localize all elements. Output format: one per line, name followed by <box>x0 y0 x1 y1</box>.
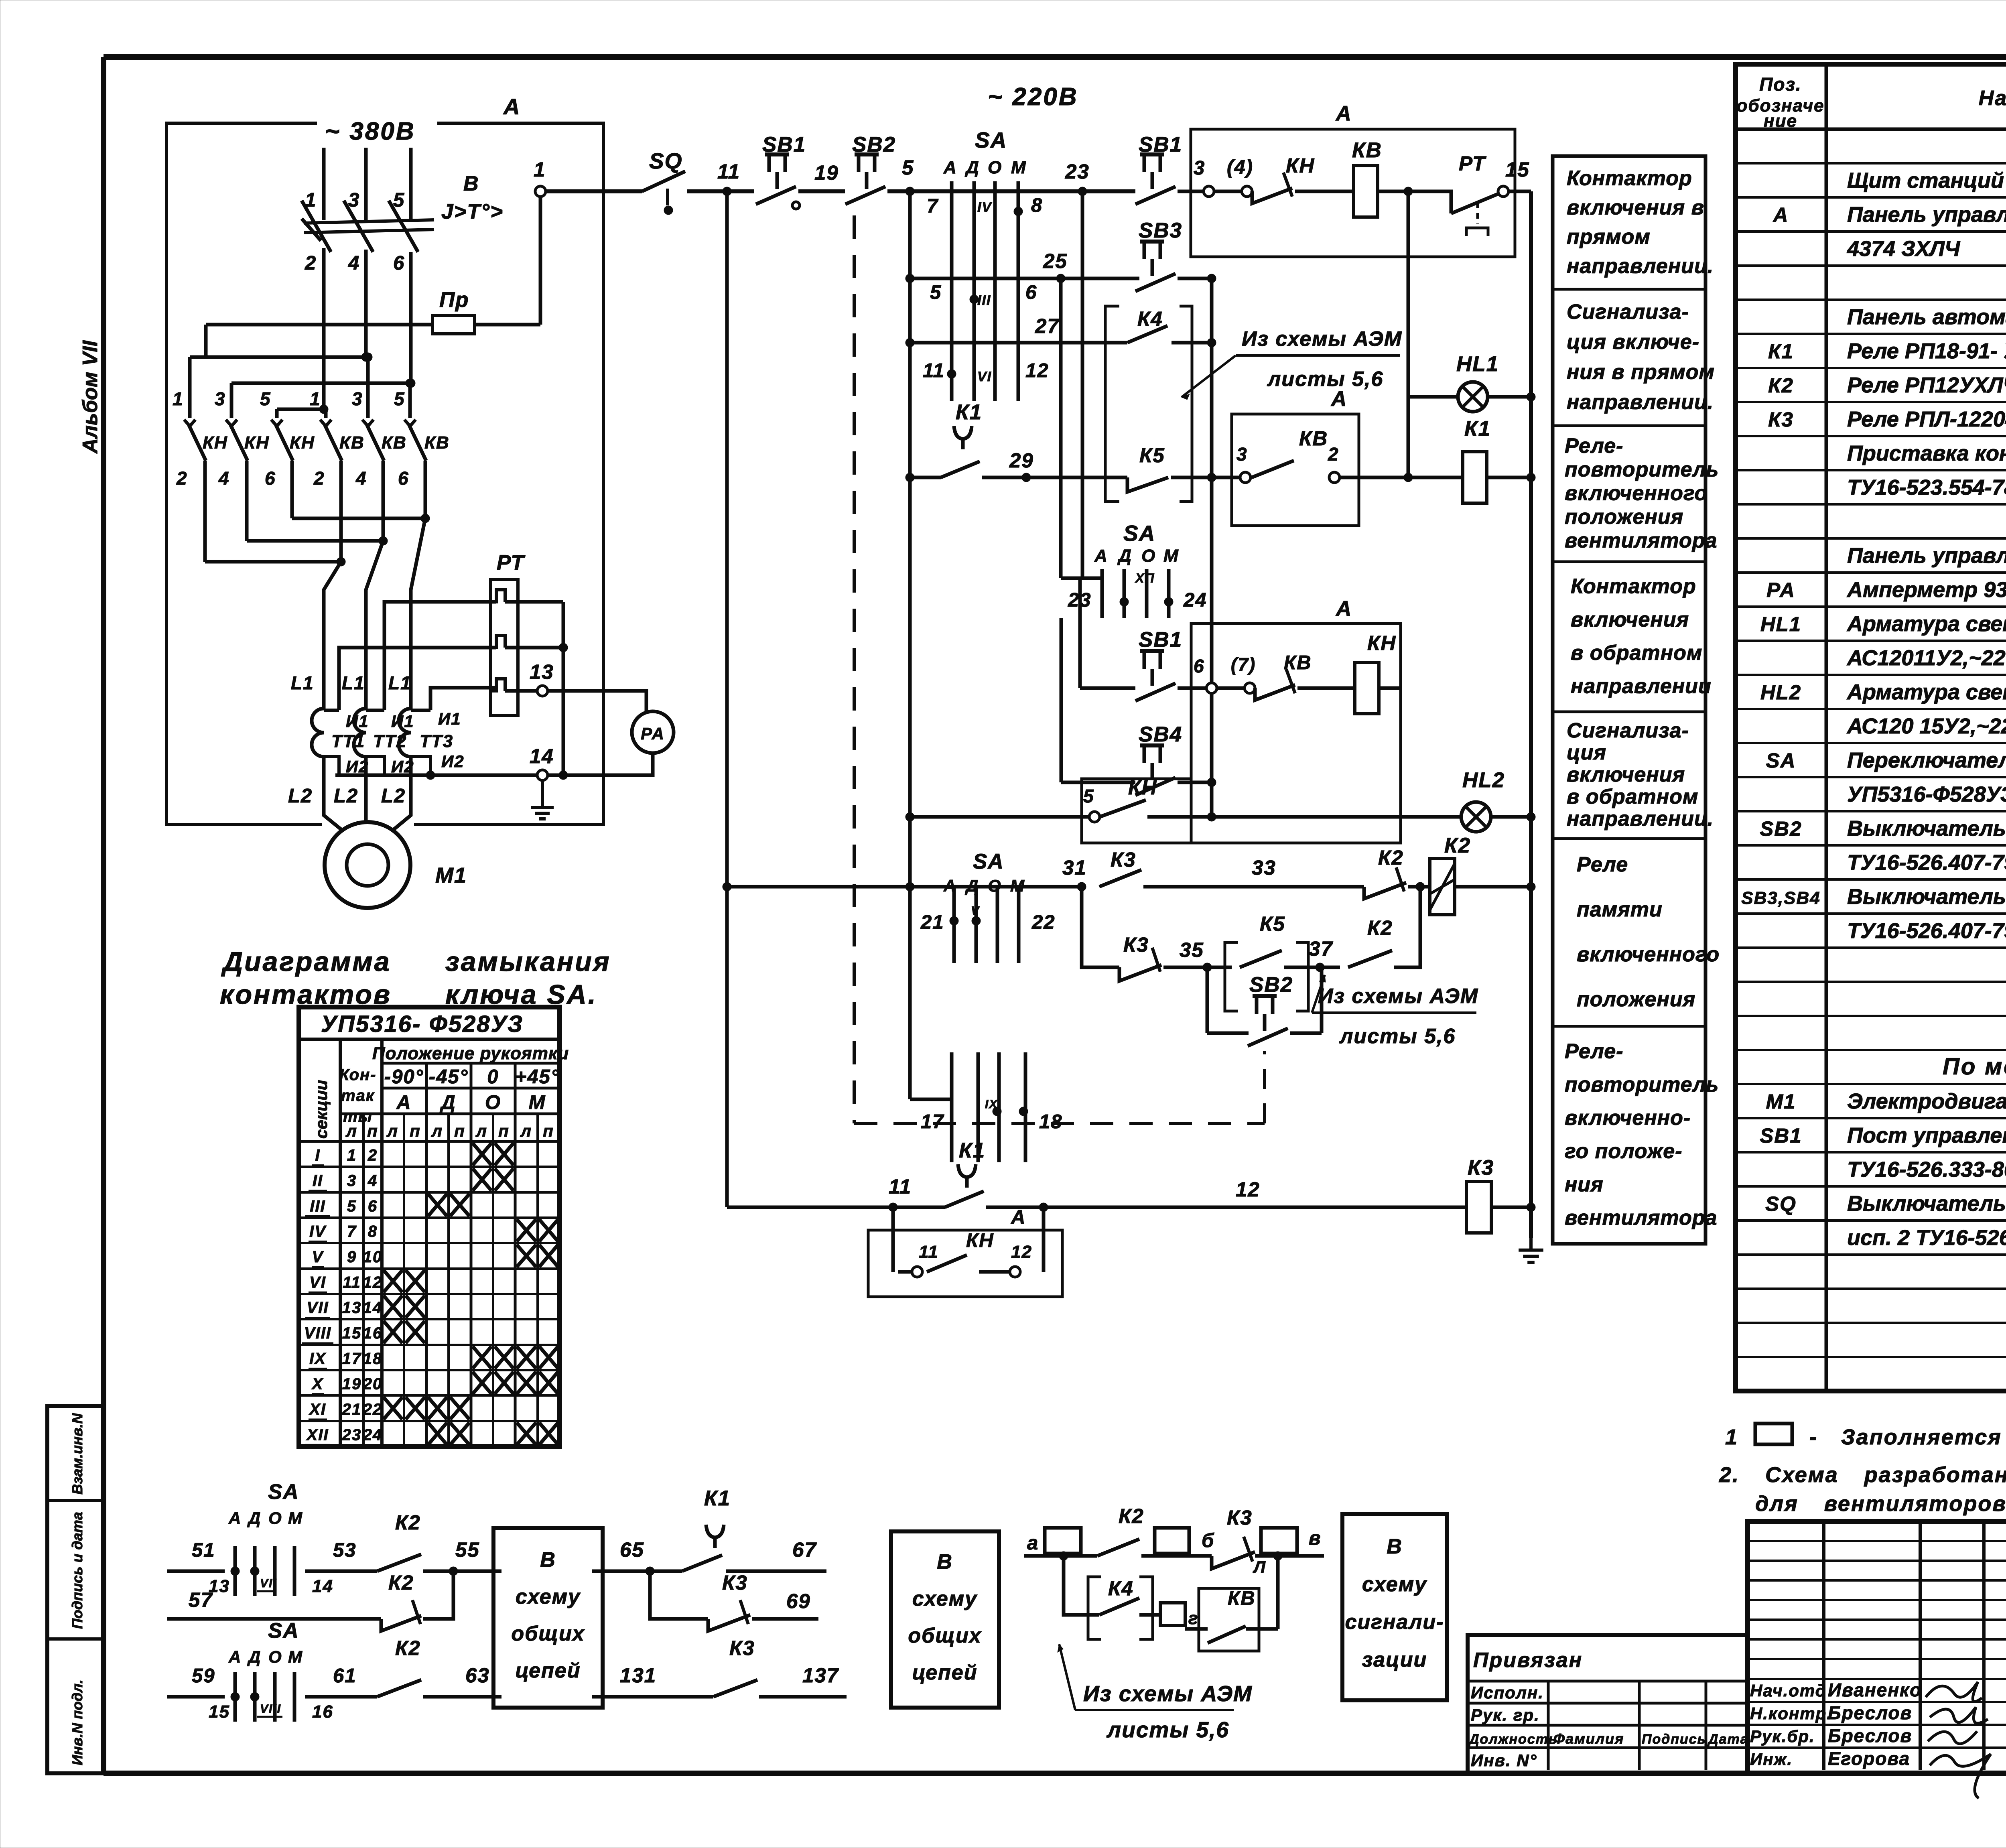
node 11 label <box>717 160 740 183</box>
SA key fragment 2 <box>167 1619 377 1722</box>
wire 65 branch down <box>650 1571 708 1619</box>
svg-text:г: г <box>1188 1608 1198 1628</box>
svg-text:А: А <box>228 1647 242 1666</box>
svg-text:21: 21 <box>920 912 944 933</box>
svg-text:XII: XII <box>306 1426 329 1444</box>
svg-text:К3: К3 <box>1227 1506 1253 1529</box>
wire secondary join <box>559 602 568 780</box>
svg-text:L2: L2 <box>288 785 313 807</box>
svg-text:К1: К1 <box>1768 340 1794 363</box>
contact K3 NC fragment <box>708 1571 750 1631</box>
svg-text:листы 5,6: листы 5,6 <box>1106 1717 1229 1742</box>
svg-text:1: 1 <box>173 388 184 409</box>
svg-text:К2: К2 <box>388 1571 414 1594</box>
SA diagram table <box>299 1007 560 1446</box>
node 13 <box>530 660 554 696</box>
wire node13 to PA <box>548 691 646 711</box>
parts table grid <box>1736 64 2006 1391</box>
wire 67 <box>726 1538 826 1571</box>
svg-text:замыкания: замыкания <box>445 946 611 977</box>
wire K4 to v3020 <box>1172 338 1216 347</box>
svg-text:SB2: SB2 <box>1760 817 1802 840</box>
svg-text:КН: КН <box>1286 154 1315 177</box>
svg-text:5: 5 <box>1083 786 1094 806</box>
svg-text:14: 14 <box>530 745 554 768</box>
label A (panel) <box>503 94 520 119</box>
svg-text:15: 15 <box>209 1702 230 1722</box>
contact KB interlock (reverse) <box>1255 652 1312 700</box>
svg-text:К2: К2 <box>1378 846 1404 869</box>
svg-text:А: А <box>1335 102 1352 125</box>
svg-text:19: 19 <box>342 1375 362 1393</box>
svg-text:16: 16 <box>363 1324 383 1342</box>
wire K5 to KB aux <box>1171 473 1240 482</box>
svg-text:4374 ЗХЛЧ: 4374 ЗХЛЧ <box>1847 237 1961 261</box>
wire branch 35 <box>1082 887 1119 967</box>
wire 33 <box>1143 856 1364 887</box>
svg-text:О: О <box>988 158 1002 177</box>
svg-text:21: 21 <box>342 1401 362 1418</box>
contactor KB main contacts <box>320 420 450 461</box>
function box 5 text <box>1567 719 1714 831</box>
SA group3 labels 21 22 <box>920 904 1056 933</box>
wire fragment5 end <box>1255 1552 1324 1560</box>
svg-text:11: 11 <box>919 1242 939 1262</box>
coil KB <box>1295 138 1382 217</box>
margin rotated labels <box>69 1413 85 1765</box>
svg-text:листы 5,6: листы 5,6 <box>1267 368 1383 391</box>
svg-text:Поз.: Поз. <box>1759 74 1801 95</box>
wire CT3 secondary to heater3 / node 13 <box>430 688 537 710</box>
net ~220V <box>988 83 1078 111</box>
ground (measuring circuit) <box>531 780 554 819</box>
svg-text:17: 17 <box>921 1111 944 1133</box>
jumper outputs row1 <box>292 514 430 523</box>
svg-text:7: 7 <box>927 195 939 217</box>
svg-text:22: 22 <box>1031 912 1056 933</box>
svg-text:55: 55 <box>455 1538 480 1561</box>
svg-text:Н.контр.: Н.контр. <box>1750 1704 1832 1723</box>
note 2 line 1 <box>1719 1460 2006 1489</box>
svg-text:А: А <box>1335 597 1352 621</box>
pin labels 1 3 5 (contactor inputs) <box>173 388 405 409</box>
svg-text:SB2: SB2 <box>852 133 896 156</box>
svg-text:КВ: КВ <box>1352 138 1382 162</box>
svg-text:цепей: цепей <box>516 1659 581 1682</box>
node 14 <box>530 745 554 780</box>
svg-text:общих: общих <box>511 1622 585 1645</box>
node 6 <box>1178 656 1217 693</box>
svg-text:АС12011У2,~220В. ТУ16-535.930-: АС12011У2,~220В. ТУ16-535.930-76 <box>1846 646 2006 670</box>
svg-text:11: 11 <box>343 1273 361 1291</box>
label B (breaker) <box>463 172 479 195</box>
contact K4 fragment <box>1099 1577 1139 1615</box>
circuit breaker B <box>302 201 434 252</box>
switch SA group2 bars <box>1102 569 1173 618</box>
svg-text:так: так <box>341 1087 375 1105</box>
contact K2 NC fragment1 <box>381 1571 421 1631</box>
svg-text:Нач.отд: Нач.отд <box>1750 1681 1827 1700</box>
SA diagram row labels and crosses <box>302 1143 558 1445</box>
wire node15 to right bus <box>1509 190 1531 193</box>
svg-text:л: л <box>475 1121 487 1140</box>
svg-text:SA: SA <box>268 1619 299 1643</box>
svg-text:Выключатель КЕ011УЗ исп.2: Выключатель КЕ011УЗ исп.2 <box>1847 816 2006 841</box>
wire phase B drop <box>364 148 368 220</box>
contact K3 (NO, rung K2) <box>1099 848 1141 887</box>
svg-text:Арматура светосигнальная: Арматура светосигнальная <box>1846 680 2006 704</box>
wire rung K2 <box>727 885 1059 889</box>
svg-text:схему: схему <box>912 1587 978 1610</box>
svg-text:I: I <box>315 1147 320 1164</box>
margin strip boxes (left bottom) <box>47 1406 104 1773</box>
stop button SB2 <box>845 133 896 204</box>
button SB2 (latch) <box>1207 967 1322 1046</box>
svg-text:ТУ16-523.554-78.: ТУ16-523.554-78. <box>1847 475 2006 500</box>
wire 11 down <box>723 191 731 1207</box>
svg-text:л: л <box>431 1121 443 1140</box>
contact K3 fragment5 <box>1212 1506 1266 1576</box>
svg-text:12: 12 <box>1025 360 1049 382</box>
svg-text:Д: Д <box>439 1092 456 1113</box>
svg-text:Выключатель конечный ВК30БУ2: Выключатель конечный ВК30БУ2 <box>1847 1192 2006 1216</box>
svg-text:По месту: По месту <box>1943 1054 2006 1080</box>
terminal box b <box>1155 1528 1214 1554</box>
svg-text:В: В <box>540 1548 556 1572</box>
wire vertical 3020 <box>1207 278 1216 821</box>
svg-text:вентилятора: вентилятора <box>1565 1206 1717 1230</box>
node 31 <box>1059 856 1087 891</box>
svg-text:К4: К4 <box>1137 307 1163 330</box>
svg-text:Сигнализа-: Сигнализа- <box>1567 719 1689 742</box>
contact KH (local) <box>898 1230 1032 1277</box>
svg-text:п: п <box>498 1121 510 1140</box>
box to common circuits 1 <box>493 1528 603 1708</box>
start button SB1b <box>1135 133 1182 204</box>
svg-text:6: 6 <box>1194 656 1205 676</box>
svg-text:К2: К2 <box>1367 916 1393 939</box>
wires to motor <box>324 757 411 833</box>
svg-text:4: 4 <box>367 1172 378 1190</box>
svg-text:а: а <box>1027 1532 1039 1554</box>
SA group4 labels 17 18 IX <box>921 1098 1063 1133</box>
terminal box g <box>1139 1603 1198 1628</box>
svg-text:1: 1 <box>347 1147 357 1164</box>
svg-text:ния: ния <box>1565 1173 1604 1196</box>
node (7) <box>1217 654 1256 693</box>
stop button SB1 <box>756 133 806 209</box>
svg-text:КН: КН <box>203 433 228 453</box>
wire PA return <box>548 753 653 775</box>
wire phase A drop <box>322 148 326 220</box>
svg-text:Иваненко: Иваненко <box>1828 1679 1922 1700</box>
svg-text:SB1: SB1 <box>1139 133 1182 156</box>
svg-text:2. Схема разработана для венти: 2. Схема разработана для вентилятора N <box>1719 1463 2006 1487</box>
wire links into SA group2 <box>1061 577 1102 580</box>
contact K3 (NC branch) <box>1119 933 1161 981</box>
svg-text:М1: М1 <box>1766 1090 1796 1113</box>
wire 137 <box>759 1664 847 1697</box>
svg-text:включения в: включения в <box>1567 196 1704 219</box>
switch SA group3 bars <box>950 885 1019 963</box>
function box 4 text <box>1571 575 1712 698</box>
svg-text:61: 61 <box>333 1665 357 1687</box>
contact K3 fragment <box>713 1637 757 1697</box>
svg-text:А: А <box>943 158 957 177</box>
svg-text:23: 23 <box>342 1426 362 1444</box>
svg-text:SA: SA <box>973 850 1004 873</box>
start button SB1 (reverse) <box>1135 628 1182 701</box>
svg-text:X: X <box>311 1375 324 1393</box>
svg-text:V: V <box>312 1248 324 1266</box>
function box 6 text <box>1577 853 1720 1011</box>
svg-text:Реле РП12УХЛЧ,~220В; ТУ16-523: Реле РП12УХЛЧ,~220В; ТУ16-523.072-75 <box>1847 373 2006 397</box>
svg-text:Д: Д <box>1117 546 1132 566</box>
svg-text:РТ: РТ <box>497 551 526 575</box>
svg-text:29: 29 <box>1009 449 1034 472</box>
svg-text:ция: ция <box>1567 741 1606 764</box>
svg-text:5: 5 <box>260 388 271 409</box>
svg-text:б: б <box>1202 1530 1214 1552</box>
title block left labels <box>1468 1649 1749 1770</box>
fuse Pr <box>206 288 540 334</box>
terminal box v <box>1261 1527 1322 1554</box>
svg-text:9: 9 <box>347 1248 357 1266</box>
SA group2 labels 23 24 XII <box>1068 571 1207 611</box>
wire fragment5 main <box>1024 1552 1097 1560</box>
svg-text:К3: К3 <box>1468 1156 1494 1180</box>
svg-text:К2: К2 <box>1768 374 1794 397</box>
node (4) <box>1214 156 1253 197</box>
svg-text:КВ: КВ <box>1228 1588 1256 1609</box>
svg-text:- Заполняется при привязке про: - Заполняется при привязке проекта <box>1809 1425 2006 1449</box>
svg-text:И1: И1 <box>346 712 369 731</box>
function box 3 text <box>1565 435 1719 552</box>
svg-text:3: 3 <box>352 388 363 409</box>
svg-text:Кон-: Кон- <box>339 1066 377 1084</box>
svg-text:И1: И1 <box>391 712 414 731</box>
svg-text:Бреслов: Бреслов <box>1828 1702 1912 1723</box>
svg-text:К5: К5 <box>1260 912 1285 935</box>
svg-text:РА: РА <box>641 724 665 743</box>
svg-text:8: 8 <box>1031 195 1043 216</box>
wire 55 <box>423 1538 501 1576</box>
svg-text:22: 22 <box>363 1401 383 1418</box>
limit switch SQ <box>642 148 685 215</box>
svg-text:3: 3 <box>1236 444 1248 465</box>
svg-text:К1: К1 <box>956 400 982 424</box>
svg-text:сигнали-: сигнали- <box>1345 1610 1444 1634</box>
svg-text:Из схемы АЭМ: Из схемы АЭМ <box>1242 327 1402 351</box>
node 3 <box>1178 157 1214 197</box>
svg-text:Исполн.: Исполн. <box>1471 1683 1544 1702</box>
title block central table <box>1748 1521 2006 1773</box>
ammeter PA <box>632 711 674 753</box>
contact K5 <box>1127 444 1168 492</box>
wire K2 coil to right bus <box>1455 885 1531 889</box>
svg-text:31: 31 <box>1062 856 1087 879</box>
wire K1 coil to right bus <box>1487 473 1535 482</box>
svg-text:24: 24 <box>1183 589 1207 611</box>
leader from scheme AEM (upper) <box>1182 327 1402 400</box>
wire bus to SB1b <box>935 160 1135 196</box>
box A (reverse contactor panel) <box>1191 597 1401 843</box>
title block signatures <box>1926 1682 1991 1798</box>
svg-text:К3: К3 <box>722 1571 748 1594</box>
svg-text:11: 11 <box>717 160 740 183</box>
wire to K1 coil <box>1340 473 1463 482</box>
svg-text:~ 220В: ~ 220В <box>988 83 1078 111</box>
svg-text:57: 57 <box>189 1588 213 1611</box>
svg-text:131: 131 <box>620 1664 656 1687</box>
svg-text:SQ: SQ <box>649 148 682 173</box>
ground (control circuit) <box>1519 1238 1543 1263</box>
svg-text:А: А <box>1094 546 1108 566</box>
svg-text:цепей: цепей <box>912 1661 978 1684</box>
wire SB1b feed <box>1080 578 1135 688</box>
coil K3 <box>1466 1156 1494 1233</box>
function box 2 text <box>1567 301 1715 414</box>
lamp HL2 <box>1461 768 1505 832</box>
svg-text:SA: SA <box>1766 749 1796 772</box>
svg-text:КВ: КВ <box>339 433 365 453</box>
CT terminal labels L2 <box>288 785 406 807</box>
svg-text:Пост управления ПКУ15-19.131: Пост управления ПКУ15-19.131-54У2 <box>1847 1123 2006 1147</box>
svg-text:положения: положения <box>1577 988 1695 1011</box>
svg-text:4: 4 <box>218 468 230 489</box>
node 5b <box>1083 786 1100 822</box>
svg-text:Диаграмма: Диаграмма <box>221 946 391 977</box>
wire bus to SA group4 <box>910 1098 952 1101</box>
svg-text:63: 63 <box>465 1664 490 1687</box>
wire rung 29 <box>910 449 1127 482</box>
wire SB1 to SB2 / node 19 <box>798 161 845 191</box>
svg-text:КН: КН <box>244 433 270 453</box>
svg-text:включенно-: включенно- <box>1565 1107 1691 1130</box>
svg-text:КН: КН <box>1367 632 1396 654</box>
wire SB2 to node 5 <box>887 156 935 196</box>
svg-text:2: 2 <box>176 468 188 489</box>
wire phase A to contactors <box>322 248 326 409</box>
svg-text:М: М <box>529 1092 546 1113</box>
svg-text:Рук.бр.: Рук.бр. <box>1750 1727 1815 1746</box>
svg-text:16: 16 <box>312 1702 333 1722</box>
svg-text:L2: L2 <box>381 785 406 807</box>
svg-text:SB1: SB1 <box>762 133 806 156</box>
wire right bus <box>1527 191 1535 1238</box>
svg-text:Щит станций управления.: Щит станций управления. <box>1847 169 2006 193</box>
svg-text:51: 51 <box>192 1539 215 1561</box>
wire node1 down to fuse <box>539 197 542 325</box>
parts table rows text <box>1741 169 2006 1250</box>
wire HL2 to right bus <box>1491 815 1531 819</box>
wire 57 branch <box>167 1588 381 1619</box>
svg-text:14: 14 <box>363 1299 383 1317</box>
wire coil KB to RT <box>1378 190 1408 193</box>
pin labels 1 3 5 (breaker input) <box>305 189 405 211</box>
svg-text:М: М <box>1011 158 1027 177</box>
svg-text:6: 6 <box>368 1197 378 1215</box>
SA diagram title <box>220 946 611 1010</box>
svg-text:Реле-: Реле- <box>1565 435 1623 458</box>
jumper outputs row3 <box>205 557 345 566</box>
svg-text:SA: SA <box>268 1480 299 1504</box>
svg-text:зации: зации <box>1362 1648 1427 1671</box>
svg-text:И1: И1 <box>438 709 461 728</box>
svg-text:23: 23 <box>1065 160 1090 183</box>
svg-text:О: О <box>268 1647 282 1666</box>
leader from scheme AEM (lower) <box>1312 975 1478 1048</box>
wire bottom rung 11 <box>727 1175 945 1212</box>
CT terminal labels I1 <box>346 709 461 731</box>
svg-text:Выключатель КЕ011УЗ исп.4: Выключатель КЕ011УЗ исп.4 <box>1847 885 2006 909</box>
svg-text:5: 5 <box>902 156 914 179</box>
svg-text:В: В <box>937 1550 953 1574</box>
svg-text:-45°: -45° <box>429 1066 468 1088</box>
contact K2 (NC) <box>1364 846 1406 899</box>
svg-text:КВ: КВ <box>382 433 407 453</box>
svg-text:К3: К3 <box>1123 933 1149 956</box>
svg-text:Д: Д <box>247 1509 261 1527</box>
svg-text:А: А <box>1773 203 1789 226</box>
svg-text:Д: Д <box>964 158 980 177</box>
svg-text:IХ: IХ <box>985 1098 998 1111</box>
wire CT2 secondary to heater1 <box>384 602 563 710</box>
contact K4 <box>1127 307 1167 343</box>
svg-text:8: 8 <box>368 1223 378 1241</box>
contact K2 fragment5 <box>1097 1505 1144 1556</box>
svg-text:К1: К1 <box>1464 417 1491 441</box>
svg-text:М: М <box>1163 546 1179 566</box>
svg-text:SB2: SB2 <box>1249 973 1293 997</box>
label I>T> (breaker trip) <box>441 200 504 223</box>
wire rung 27 (K4) <box>910 315 1127 382</box>
panel A enclosure box <box>166 123 603 824</box>
svg-text:18: 18 <box>1039 1111 1063 1133</box>
album label (rotated, left margin) <box>79 340 102 454</box>
svg-text:IV: IV <box>309 1223 327 1241</box>
wire SB3 to v3020 <box>1178 274 1216 283</box>
svg-text:IX: IX <box>309 1350 326 1367</box>
svg-text:III: III <box>310 1197 325 1215</box>
svg-text:12: 12 <box>1236 1178 1260 1201</box>
function description column <box>1553 156 1706 1244</box>
svg-text:3: 3 <box>348 189 360 211</box>
svg-text:общих: общих <box>908 1624 981 1647</box>
svg-text:КН: КН <box>290 433 315 453</box>
svg-text:для вентиляторов N: для вентиляторов N <box>1755 1492 2006 1516</box>
relay K1 contact (rung 29) <box>941 400 982 477</box>
node 1 <box>534 158 546 197</box>
svg-text:24: 24 <box>363 1426 383 1444</box>
svg-text:Должность: Должность <box>1468 1732 1557 1747</box>
svg-text:III: III <box>977 293 991 308</box>
wire feeders to CT <box>324 518 425 709</box>
svg-text:VI: VI <box>309 1273 326 1291</box>
wire HL1 to right bus <box>1488 392 1535 401</box>
thermal contact RT <box>1378 152 1499 236</box>
SA diagram headers <box>312 1011 569 1140</box>
wire link node25 down <box>1059 278 1063 578</box>
thermal relay PT heater <box>491 551 526 715</box>
svg-text:К1: К1 <box>704 1487 731 1510</box>
svg-text:HL2: HL2 <box>1462 768 1505 792</box>
svg-text:ХП: ХП <box>1135 571 1155 585</box>
node 37 <box>1284 937 1340 972</box>
svg-text:ТУ16-526.407-79: ТУ16-526.407-79 <box>1847 919 2006 943</box>
svg-text:15: 15 <box>342 1324 362 1342</box>
wire branch K4 <box>1064 1556 1099 1615</box>
